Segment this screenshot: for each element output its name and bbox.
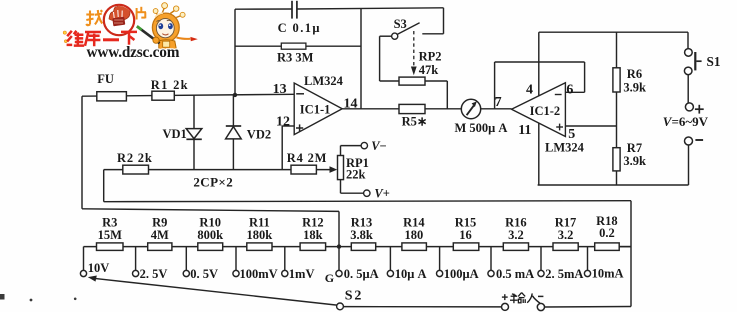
wire bus R2 to right edge	[104, 201, 631, 202]
resistor R3 3M feedback	[277, 43, 314, 64]
svg-text:18k: 18k	[303, 228, 323, 242]
wire G column	[338, 211, 340, 270]
resistor R1 2k	[151, 78, 189, 100]
op-amp U2 IC1-2	[495, 83, 585, 155]
svg-text:13: 13	[273, 82, 287, 97]
svg-text:15M: 15M	[98, 228, 123, 242]
svg-text:10μ A: 10μ A	[395, 267, 427, 281]
svg-text:2. 5mA: 2. 5mA	[545, 267, 583, 281]
svg-text:16: 16	[459, 228, 472, 242]
svg-text:10V: 10V	[88, 261, 110, 275]
watermark glyph zhao	[86, 10, 102, 25]
svg-text:4: 4	[526, 83, 533, 98]
svg-text:LM324: LM324	[304, 74, 344, 88]
resistor R2 2k row wire	[104, 169, 331, 171]
resistor R10 800k	[197, 216, 223, 251]
svg-text:0.5 mA: 0.5 mA	[496, 267, 534, 281]
potentiometer RP1 22k	[338, 156, 369, 182]
resistor R9 4M	[148, 216, 172, 251]
svg-text:FU: FU	[97, 72, 114, 86]
label shu-ru (input) glyphs	[510, 293, 540, 304]
svg-text:RP2: RP2	[419, 50, 442, 64]
terminal 10uA	[387, 247, 426, 281]
terminal 2.5V	[133, 247, 168, 281]
terminal V-	[341, 139, 387, 156]
terminal 100mV	[233, 247, 278, 281]
svg-text:0. 5V: 0. 5V	[190, 267, 218, 281]
wire pin5 to R6 R7 junction	[565, 125, 616, 127]
resistor R18 0.2	[595, 214, 620, 250]
wire bottom resistor row	[84, 246, 632, 248]
svg-text:100mV: 100mV	[240, 267, 278, 281]
resistor R13 3.8k	[350, 216, 375, 251]
op-amp U2 IC1-2 feedback box	[495, 62, 585, 109]
battery V=6~9V	[663, 75, 709, 185]
diode VD1	[163, 95, 202, 169]
resistor R15 16	[453, 216, 479, 251]
svg-text:R4 2M: R4 2M	[287, 151, 327, 165]
svg-text:800k: 800k	[197, 228, 223, 242]
terminal 100uA	[437, 247, 479, 281]
resistor R6 3.9k	[613, 32, 646, 148]
svg-text:6: 6	[566, 83, 573, 98]
node junction dot at VD2 top	[233, 93, 237, 97]
wire RP2 right drop	[425, 81, 447, 109]
capacitor C 0.1u	[278, 1, 321, 35]
watermark mascot	[137, 3, 198, 58]
svg-text:2CP×2: 2CP×2	[193, 174, 233, 189]
watermark sparkles	[63, 31, 67, 43]
resistor R17 3.2	[553, 216, 578, 251]
switch S2 selector	[88, 276, 363, 310]
terminal 10V	[80, 247, 109, 277]
wire right edge column	[630, 201, 632, 307]
resistor R5*	[399, 104, 427, 128]
wire pin12 stub	[282, 126, 294, 170]
svg-text:C 0.1μ: C 0.1μ	[278, 21, 321, 35]
resistor R11 180k	[247, 216, 273, 251]
resistor R3 15M	[97, 216, 124, 251]
terminal V+	[341, 180, 390, 201]
resistor R14 180	[402, 216, 427, 251]
wire right feedback rail	[360, 8, 362, 109]
potentiometer RP2 47k	[399, 31, 442, 85]
terminal 10mA	[584, 247, 623, 281]
watermark badge zhao-xin-pian	[104, 2, 134, 35]
wire left feedback rail	[234, 9, 236, 95]
svg-text:180k: 180k	[247, 228, 273, 242]
wire R2 U bend	[103, 170, 105, 202]
svg-text:VD1: VD1	[163, 127, 187, 141]
terminal 0.5V	[183, 247, 218, 281]
svg-text:G: G	[325, 271, 334, 285]
svg-text:V−: V−	[371, 139, 386, 153]
svg-text:4M: 4M	[151, 228, 169, 242]
svg-text:10mA: 10mA	[592, 266, 624, 280]
svg-text:V=6~9V: V=6~9V	[663, 114, 709, 129]
svg-text:0. 5μA: 0. 5μA	[344, 267, 379, 281]
watermark glyph pian	[137, 7, 146, 20]
diode VD2	[226, 95, 272, 170]
fuse FU	[97, 72, 127, 101]
svg-text:R3 3M: R3 3M	[277, 51, 314, 65]
svg-text:LM324: LM324	[545, 140, 585, 154]
svg-text:12: 12	[276, 114, 290, 129]
svg-text:3.2: 3.2	[508, 228, 524, 242]
wire S3 to RP2 left	[380, 36, 399, 81]
svg-text:3.9k: 3.9k	[623, 154, 646, 168]
svg-text:7: 7	[495, 95, 502, 110]
resistor R2 2k	[117, 151, 153, 174]
svg-text:100μA: 100μA	[444, 267, 479, 281]
battery box top wire	[539, 31, 688, 33]
resistor R12 18k	[300, 216, 326, 251]
terminal 2.5mA	[538, 247, 584, 281]
svg-text:5: 5	[568, 127, 575, 142]
wire S2 to input plus	[343, 306, 501, 308]
svg-text:3.8k: 3.8k	[350, 228, 373, 242]
watermark red text wei-ku-yi-xia	[67, 31, 137, 46]
wire input minus to right edge	[545, 306, 632, 309]
wire R18 to right edge	[619, 246, 631, 248]
wire left ground rail	[82, 96, 339, 211]
svg-text:3.2: 3.2	[558, 228, 574, 242]
switch S1 pushbutton	[684, 32, 720, 74]
svg-text:180: 180	[405, 228, 424, 242]
switch S3	[392, 8, 444, 40]
svg-text:R5∗: R5∗	[402, 115, 428, 129]
resistor R7 3.9k	[613, 141, 646, 185]
speck artifacts	[0, 294, 76, 301]
svg-text:VD2: VD2	[247, 128, 271, 142]
meter M 500uA	[455, 99, 508, 135]
svg-text:R6: R6	[627, 67, 642, 81]
terminal 0.5mA	[488, 247, 534, 281]
svg-text:R2 2k: R2 2k	[117, 151, 153, 165]
wire pin4	[538, 32, 540, 96]
svg-text:R1 2k: R1 2k	[151, 78, 189, 92]
svg-text:R7: R7	[627, 141, 642, 155]
battery box bottom wire	[538, 184, 689, 186]
svg-text:V+: V+	[374, 186, 389, 200]
svg-text:IC1-1: IC1-1	[300, 102, 331, 116]
svg-text:22k: 22k	[346, 167, 366, 181]
svg-text:S1: S1	[707, 54, 721, 69]
wire pin14 output row	[342, 108, 511, 110]
node junction dot G	[337, 244, 341, 248]
svg-text:IC1-2: IC1-2	[530, 104, 561, 118]
svg-text:www.dzsc.com: www.dzsc.com	[87, 44, 180, 61]
svg-text:0.2: 0.2	[599, 226, 615, 240]
svg-text:1mV: 1mV	[289, 267, 315, 281]
terminal G 0.5uA	[325, 267, 379, 285]
terminal 1mV	[282, 247, 315, 281]
op-amp U1 IC1-1	[273, 74, 358, 134]
input terminals plus shuru minus	[502, 294, 545, 310]
svg-text:2. 5V: 2. 5V	[140, 267, 168, 281]
wire top feedback rail	[235, 8, 444, 9]
resistor R16 3.2	[503, 216, 528, 251]
svg-text:S3: S3	[394, 17, 407, 31]
svg-text:11: 11	[518, 123, 531, 138]
wire pin11	[538, 123, 540, 185]
svg-text:3.9k: 3.9k	[623, 80, 646, 94]
wire R3 feedback row	[235, 45, 361, 47]
svg-text:S2: S2	[345, 289, 363, 304]
resistor R4 2M	[287, 151, 337, 174]
wire input row y=95	[82, 94, 294, 96]
svg-text:47k: 47k	[419, 63, 439, 77]
svg-text:M 500μ A: M 500μ A	[455, 121, 508, 135]
